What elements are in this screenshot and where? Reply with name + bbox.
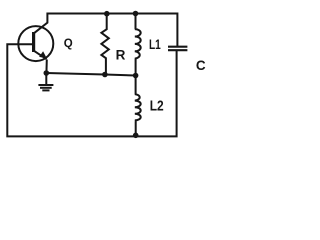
wire: emitter lead down to junction [45,60,47,75]
node: emitter junction dot [44,70,50,76]
node: R top junction dot [104,11,110,17]
svg-text:L2: L2 [150,98,164,114]
wire: emitter-R-L junction rail (mid wire) [46,73,135,76]
transistor Q [18,26,53,61]
node: L1/L2 tap junction dot [133,73,139,79]
inductor L1 [135,14,141,76]
resistor R [101,14,108,75]
wire: base lead + left rail + bottom rail + right rail (outer loop) [7,44,176,136]
node: L1 top junction dot [133,11,139,17]
wire: collector lead corner + top rail + capacitor top lead [33,14,177,47]
svg-text:C: C [196,58,206,73]
svg-text:L1: L1 [149,36,161,52]
node: L2 bottom junction dot [133,133,139,139]
node: R bottom junction dot [102,72,108,78]
svg-text:Q: Q [64,38,73,50]
svg-text:R: R [116,47,126,62]
capacitor C [168,47,187,51]
inductor L2 [135,76,141,136]
ground [38,73,53,90]
